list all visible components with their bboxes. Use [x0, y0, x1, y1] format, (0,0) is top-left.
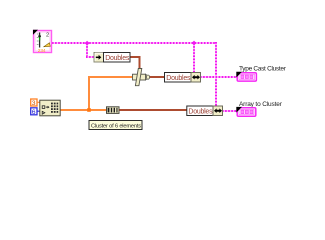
label: Cluster of 6 elements [89, 121, 142, 130]
numeric constant 3 (DBL, orange) [31, 99, 37, 107]
Array To Cluster primitive (small) [107, 107, 120, 114]
Type Cast Cluster indicator terminal [236, 72, 256, 81]
wire: bottom pink wire from cast icon to Array to Cluster indicator [222, 110, 237, 112]
wire: orange array wire from Initialize Array to Array To Cluster primitive [60, 109, 107, 111]
wire: middle pink wire from cast icon to Type Cast Cluster indicator [200, 76, 237, 78]
svg-text:3: 3 [32, 100, 36, 107]
wire: V1 vertical branch into middle Doubles cast icon [193, 43, 195, 73]
Doubles cast node (bottom row) [187, 106, 223, 116]
svg-text:234: 234 [38, 48, 46, 54]
wire: maroon cluster wire from Array To Cluster primitive to bottom Doubles label [119, 109, 187, 111]
svg-text:Doubles: Doubles [188, 109, 213, 116]
Array to Cluster indicator terminal [236, 107, 256, 116]
svg-text:Cluster of 6 elements: Cluster of 6 elements [91, 123, 141, 129]
Type Cast function icon [133, 69, 150, 86]
node: junction J3 (orange) [87, 108, 91, 112]
wire: branch down from J1 to Doubles control terminal [86, 43, 94, 57]
wire: V2 vertical into bottom Doubles cast icon [215, 42, 217, 106]
node: junction J1 on top wire [85, 41, 90, 46]
svg-text:6: 6 [32, 109, 36, 116]
wire: maroon cluster wire from Type Cast output to middle Doubles label [148, 76, 165, 78]
node: junction J2 on top wire [192, 41, 197, 46]
wire: stub from constant 3 to Initialize Array [37, 101, 40, 103]
svg-text:2: 2 [46, 32, 49, 38]
svg-text:Doubles: Doubles [105, 55, 130, 62]
svg-text:Type Cast Cluster: Type Cast Cluster [239, 66, 287, 73]
Initialize Array function icon [40, 100, 60, 116]
wire: maroon cluster wire from top Doubles label down into Type Cast type input [130, 57, 140, 70]
wire: stub from constant 6 to Initialize Array [37, 110, 40, 112]
wire: orange array wire branch up-and-over into Type Cast data input [89, 77, 133, 110]
Doubles cast node (middle row) [165, 73, 201, 83]
numeric constant 6 (I32, blue) [31, 108, 37, 116]
slider cluster constant icon (top-left) [33, 30, 52, 54]
svg-text:Doubles: Doubles [166, 75, 191, 82]
wire: top cluster wire (pink dashed) from slider icon across to V2 corner [52, 42, 217, 44]
Doubles control terminal (top row) [94, 53, 130, 63]
